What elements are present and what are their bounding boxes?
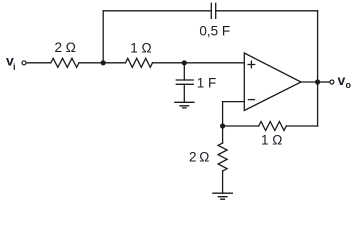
svg-text:1 Ω: 1 Ω bbox=[130, 40, 151, 55]
junction output node bbox=[315, 79, 320, 84]
op-amp U1 triangle bbox=[244, 53, 301, 111]
wire node A to R 1ohm bbox=[103, 62, 125, 64]
resistor 2ohm input bbox=[51, 58, 79, 67]
svg-text:1 F: 1 F bbox=[197, 76, 217, 91]
wire top rail left to capacitor 0.5F bbox=[103, 10, 211, 12]
svg-text:v: v bbox=[338, 72, 346, 88]
wire output node to vo terminal bbox=[320, 81, 330, 83]
op-amp minus sign bbox=[248, 99, 254, 101]
resistor 1ohm top bbox=[126, 58, 153, 67]
wire op-amp minus input left bbox=[223, 101, 245, 103]
wire input terminal to R 2ohm bbox=[26, 62, 51, 64]
capacitor 1F plates bbox=[176, 80, 193, 84]
wire node B to op-amp plus input bbox=[184, 62, 244, 64]
resistor 2ohm shunt vertical bbox=[218, 143, 227, 171]
svg-text:1 Ω: 1 Ω bbox=[261, 132, 282, 147]
wire op-amp output to node bbox=[301, 81, 318, 83]
wire feedback resistor to right rail bbox=[286, 125, 317, 127]
ground under 2ohm resistor bbox=[213, 193, 232, 199]
junction node C bbox=[220, 123, 225, 128]
node vi terminal bbox=[22, 61, 26, 65]
svg-text:2 Ω: 2 Ω bbox=[189, 150, 209, 165]
resistor 1ohm feedback bbox=[259, 122, 287, 131]
wire R1ohm to node B bbox=[153, 62, 185, 64]
svg-text:o: o bbox=[346, 80, 352, 90]
wire resistor 2ohm to ground bbox=[222, 171, 224, 193]
svg-text:0,5 F: 0,5 F bbox=[199, 23, 230, 38]
junction node A bbox=[101, 60, 106, 65]
ground under 1F capacitor bbox=[175, 102, 194, 108]
wire right rail down to output node bbox=[317, 11, 319, 82]
wire down to node C bbox=[222, 102, 224, 126]
wire R2ohm to node A bbox=[79, 62, 103, 64]
wire capacitor 0.5F to right rail bbox=[216, 10, 318, 12]
junction node B bbox=[182, 60, 187, 65]
node vo terminal bbox=[330, 80, 334, 84]
svg-text:i: i bbox=[13, 62, 16, 72]
wire node C down to resistor 2ohm bbox=[222, 126, 224, 143]
capacitor 1F lead from node B bbox=[183, 63, 185, 80]
wire node A up to top rail bbox=[102, 11, 104, 63]
op-amp plus sign bbox=[248, 61, 255, 68]
svg-text:2 Ω: 2 Ω bbox=[55, 40, 76, 55]
capacitor C 0.5F plates bbox=[211, 3, 215, 18]
capacitor 1F lead to ground bbox=[183, 84, 185, 102]
wire right rail output node down to feedback bbox=[317, 82, 319, 126]
wire node C to feedback resistor bbox=[223, 125, 259, 127]
